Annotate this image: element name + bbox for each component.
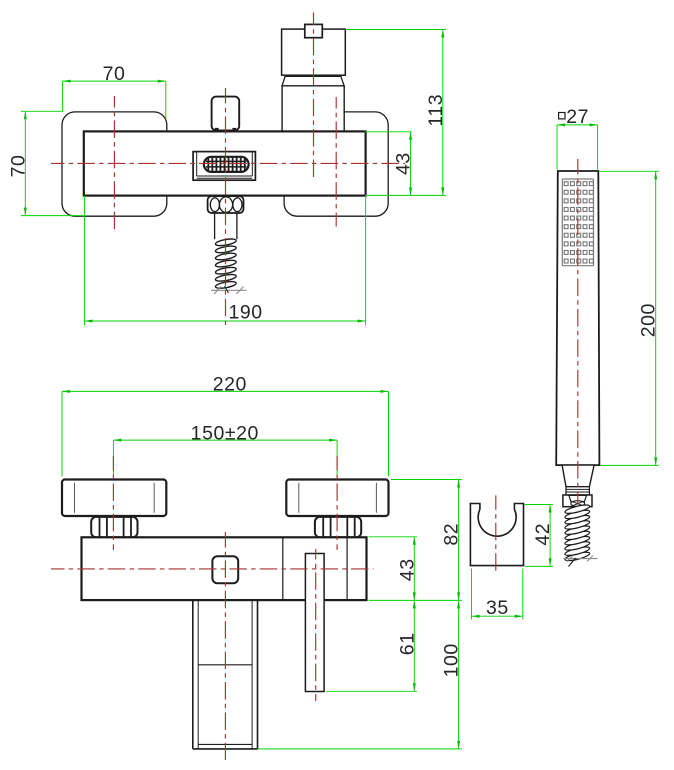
svg-text:42: 42: [532, 523, 554, 546]
plan view: spout joint line: [198, 664, 252, 666]
centerline: front view right handle axis: [335, 97, 337, 227]
svg-text:220: 220: [213, 374, 247, 396]
dim 100: dimension line: [458, 600, 460, 749]
front view: diverter top square: [305, 24, 323, 37]
plan view: body division lines: [282, 537, 284, 600]
dim 70 top: extension lines: [62, 81, 64, 111]
dim 220: extension lines: [61, 391, 63, 476]
dim 43 front: dimension line: [410, 132, 412, 196]
hand shower thread section: [566, 487, 589, 495]
plan view: body: [82, 537, 367, 600]
front view: outlet nut rollers: [210, 198, 219, 212]
wall bracket: [470, 504, 523, 566]
svg-text:190: 190: [229, 302, 263, 324]
front view: diverter neck: [282, 76, 344, 86]
front view: front plate: [84, 131, 366, 195]
front view: aerator outer frame: [193, 152, 255, 181]
centerline: front view main vertical axis: [225, 88, 227, 328]
svg-text:43: 43: [396, 558, 418, 581]
plan view: spout inner walls: [197, 600, 199, 749]
dim 190: dimension line: [84, 320, 365, 322]
hand shower hose crimp: [569, 495, 587, 503]
dim 150: extension lines: [112, 440, 114, 476]
front view: aerator grille bars: [206, 158, 247, 172]
dim 27: square symbol: [559, 113, 565, 119]
plan view: left handle facet lines: [74, 483, 76, 513]
dim 100: extension line: [258, 748, 462, 750]
svg-text:200: 200: [638, 303, 660, 337]
dim 70 left: dimension line: [24, 111, 26, 215]
front view: aerator inner frame: [196, 152, 198, 176]
dim 82: dimension line: [458, 480, 460, 601]
dim 35: dimension line: [472, 615, 523, 617]
svg-text:113: 113: [425, 94, 447, 127]
svg-text:100: 100: [441, 643, 463, 677]
front view: cartridge cap feet: [215, 128, 219, 131]
hand shower spray plate: [562, 179, 593, 266]
dim 200: extension lines: [600, 170, 659, 172]
dim 43 plan: extension line: [369, 536, 418, 538]
centerline: wall bracket axis: [495, 495, 497, 573]
front view: diverter knob: [282, 29, 346, 75]
plan view: left handle: [62, 480, 166, 517]
plan view: spout outer walls: [192, 600, 194, 749]
plan view: right mounting nuts: [315, 517, 361, 537]
hand shower cone: [562, 465, 594, 487]
plan view: left mounting nuts: [91, 517, 137, 537]
centerline: plan view right handle axis: [336, 456, 338, 550]
plan view: right handle: [286, 480, 388, 517]
front view: right body block: [284, 112, 388, 216]
svg-text:150±20: 150±20: [191, 422, 259, 444]
svg-text:82: 82: [441, 523, 463, 546]
front view: diverter cylinder: [282, 86, 344, 132]
dim 43 front: extension line: [365, 131, 412, 133]
hand shower hose break mark: [564, 556, 598, 562]
centerline: plan view left handle axis: [112, 456, 114, 550]
hand shower body: [556, 171, 599, 465]
dim 113: extension lines: [345, 29, 446, 31]
dim 42: dimension line: [549, 505, 551, 567]
dim 150: dimension line: [113, 439, 337, 441]
front view: hose spring: [215, 238, 237, 290]
centerline: hand shower axis: [577, 159, 579, 504]
svg-text:27: 27: [566, 106, 589, 128]
front view: hose break mark: [211, 287, 247, 295]
front view: outlet nut: [208, 196, 244, 213]
hand shower hose nut: [563, 495, 592, 507]
dim 61: dimension line: [413, 600, 415, 691]
front view: aerator slot: [204, 157, 249, 172]
svg-text:61: 61: [396, 632, 418, 655]
centerline: front view horizontal axis: [51, 162, 405, 164]
centerline: plan view spout axis: [224, 532, 226, 760]
plan view: right handle facet lines: [298, 483, 300, 513]
dim 43 plan: dimension line: [413, 537, 415, 601]
plan view: diverter tube: [305, 554, 324, 692]
svg-text:70: 70: [103, 63, 126, 85]
dim 27: extension lines: [556, 125, 558, 170]
dim 82: extension lines: [391, 479, 462, 481]
centerline: front view left handle axis: [113, 96, 115, 230]
centerline: plan view diverter axis: [315, 549, 317, 701]
dim 113: dimension line: [442, 30, 444, 196]
dim 35: extension lines: [471, 569, 473, 620]
centerline: front view diverter axis: [313, 13, 315, 178]
hand shower nozzle grid: [564, 182, 593, 263]
svg-text:70: 70: [8, 155, 30, 178]
dim 27: dimension line: [557, 124, 598, 126]
front view: cartridge cap: [212, 97, 240, 131]
front view: left body block: [62, 112, 167, 216]
hand shower hose spring: [564, 503, 590, 562]
dim 200: dimension line: [655, 171, 657, 465]
svg-text:35: 35: [486, 597, 509, 619]
dim 70 top: dimension line: [63, 80, 166, 82]
front view: hose connector: [214, 213, 216, 239]
dim 220: dimension line: [62, 390, 389, 392]
plan view: spout end line: [198, 743, 252, 745]
centerline: plan view horizontal axis: [51, 568, 374, 570]
dim 42: extension lines: [525, 504, 553, 506]
plan view: cartridge square: [212, 556, 238, 583]
dim 61: extension line: [326, 690, 417, 692]
dim 70 left: extension lines: [21, 110, 63, 112]
dim 190: extension lines: [83, 196, 85, 326]
